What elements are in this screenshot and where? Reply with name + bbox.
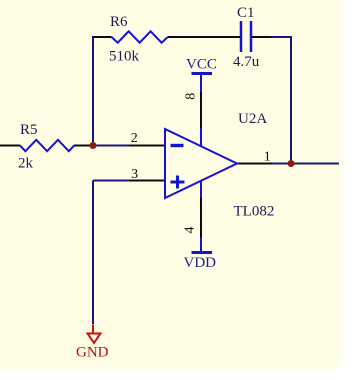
svg-text:4.7u: 4.7u xyxy=(233,54,260,70)
svg-text:2: 2 xyxy=(131,131,138,146)
svg-text:510k: 510k xyxy=(109,49,140,65)
svg-text:VCC: VCC xyxy=(186,57,217,73)
svg-text:GND: GND xyxy=(76,345,109,361)
svg-text:4: 4 xyxy=(183,227,198,234)
svg-text:TL082: TL082 xyxy=(234,204,275,220)
svg-text:R6: R6 xyxy=(110,14,128,30)
svg-text:VDD: VDD xyxy=(184,255,217,271)
svg-text:1: 1 xyxy=(264,150,271,165)
svg-text:C1: C1 xyxy=(237,5,255,21)
svg-text:8: 8 xyxy=(183,93,198,100)
svg-text:R5: R5 xyxy=(20,122,38,138)
svg-text:U2A: U2A xyxy=(238,111,267,127)
svg-text:3: 3 xyxy=(131,167,138,182)
svg-text:2k: 2k xyxy=(18,156,34,172)
